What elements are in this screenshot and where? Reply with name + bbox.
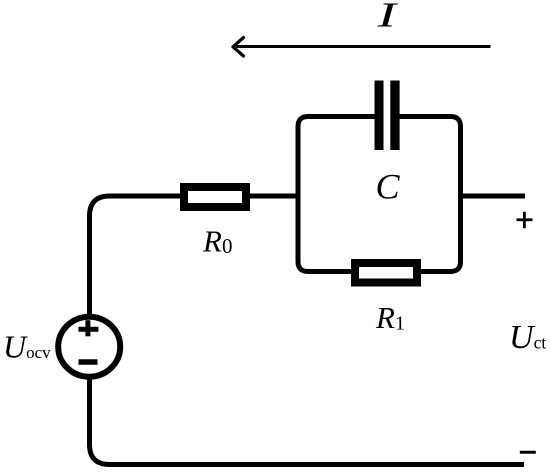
svg-text:I: I: [376, 0, 400, 35]
resistor R1: [355, 263, 417, 283]
wire: RC parallel loop (rounded rectangle with gap for capacitor): [298, 117, 461, 272]
svg-text:Uocv: Uocv: [3, 329, 51, 365]
voltage source - polarity mark: [79, 359, 98, 365]
svg-text:Uct: Uct: [509, 319, 546, 356]
current arrow (direction of I): [233, 38, 491, 57]
wire: loop to + terminal: [461, 194, 526, 199]
voltage source + polarity mark: [79, 320, 99, 336]
resistor R0: [184, 187, 246, 207]
voltage source Uocv (circle): [58, 317, 120, 377]
svg-text:R1: R1: [375, 300, 405, 335]
wire: negative branch (Uocv bottom, rounded corner, bottom rail to - terminal): [90, 376, 525, 465]
wire: positive branch (Uocv top to R0 via rounded corner): [90, 196, 299, 322]
svg-text:C: C: [376, 167, 401, 207]
terminal - (negative output): [520, 451, 536, 454]
capacitor C plates: [375, 81, 400, 151]
terminal + (positive output): [517, 212, 533, 228]
svg-text:R0: R0: [202, 224, 232, 259]
